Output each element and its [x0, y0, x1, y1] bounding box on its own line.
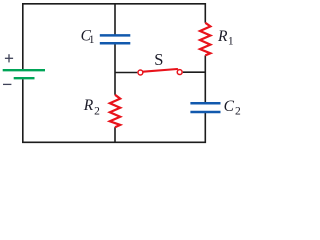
battery - label — [3, 83, 11, 85]
battery + label — [5, 54, 13, 62]
svg-text:2: 2 — [235, 106, 241, 118]
battery positive plate (long, green) — [3, 69, 45, 71]
resistor R1 zigzag (red) — [200, 23, 210, 56]
switch S lever (red) — [143, 69, 177, 72]
wire bottom loop: battery down, bottom wire, right branch up to C2 — [23, 79, 206, 142]
svg-text:2: 2 — [94, 106, 100, 118]
wire middle branch C1 to R2 — [114, 43, 116, 95]
svg-text:R: R — [83, 97, 94, 114]
svg-text:C: C — [224, 98, 235, 115]
wire top loop: left branch up, top wire, right branch down to R1 — [23, 4, 206, 69]
svg-text:1: 1 — [89, 34, 95, 46]
svg-text:R: R — [217, 28, 228, 45]
wire middle branch top to C1 — [114, 4, 116, 36]
wire middle branch R2 to bottom — [114, 127, 116, 142]
battery negative plate (short, green) — [14, 77, 35, 79]
wire switch left segment — [115, 72, 137, 74]
wire right branch R1 to C2 — [204, 55, 206, 103]
svg-text:1: 1 — [228, 36, 234, 48]
capacitor C1 plates (blue) — [100, 35, 131, 43]
switch right contact circle — [177, 70, 182, 75]
resistor R2 zigzag (red) — [110, 95, 120, 127]
capacitor C2 plates (blue) — [190, 103, 220, 112]
switch left contact circle — [138, 70, 143, 75]
wire switch right segment — [183, 71, 206, 73]
svg-text:S: S — [154, 50, 163, 69]
